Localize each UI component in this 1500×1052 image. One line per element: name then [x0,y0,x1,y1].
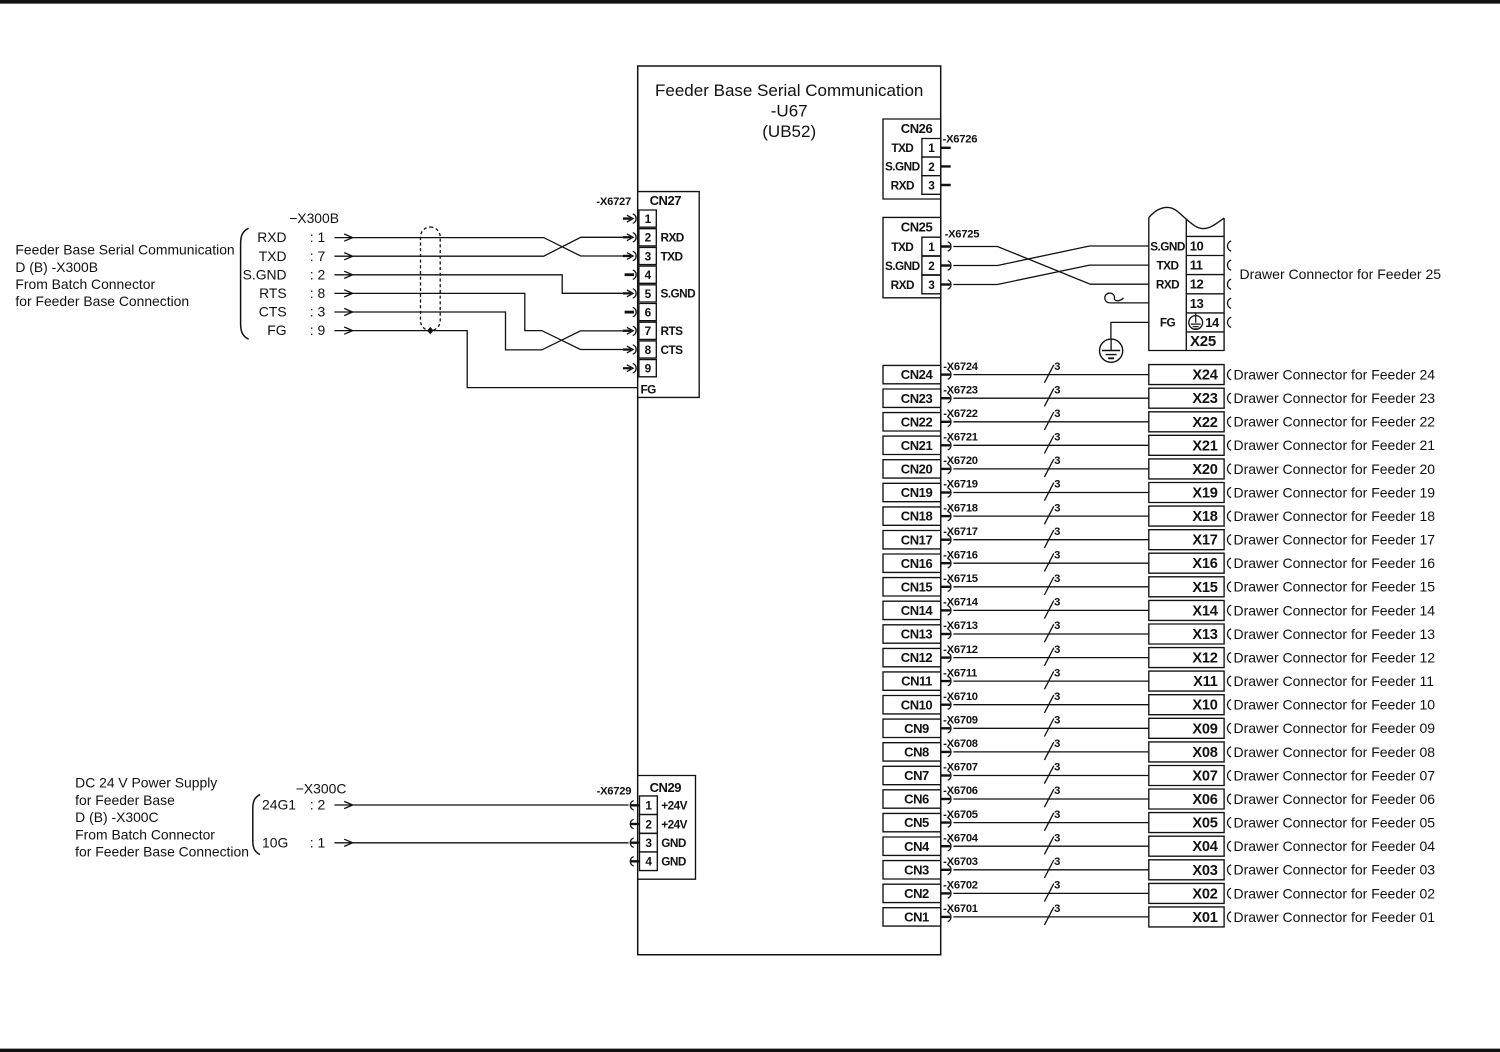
svg-text:-X6702: -X6702 [943,880,978,892]
connector X15 [1149,577,1224,597]
connector CN10 [883,696,941,714]
wire CN23 to X23 [953,397,1148,399]
cable shield (dashed stadium) [421,227,441,331]
connector X09 [1149,718,1224,738]
svg-text:3: 3 [1054,573,1060,585]
svg-text:S.GND: S.GND [661,287,697,301]
contact symbol CN6 [941,794,951,803]
contact symbol CN2 [941,889,951,898]
connector CN26 outline [883,119,941,199]
svg-text:: 1: : 1 [310,834,326,850]
svg-text:-X6729: -X6729 [597,785,632,797]
svg-text:CN24: CN24 [901,367,934,382]
connector CN21 [883,436,941,454]
svg-text:CN23: CN23 [901,391,933,406]
connector CN4 [883,837,941,855]
svg-text:-X6711: -X6711 [943,667,977,679]
svg-text:CN27: CN27 [650,193,682,208]
svg-text:X05: X05 [1192,816,1217,832]
wire CN17 to X17 [953,539,1148,541]
svg-text:3: 3 [1054,384,1060,396]
bus slash 3 wires (row 17) [1044,526,1060,548]
svg-text:12: 12 [1190,277,1204,292]
svg-text:CN8: CN8 [904,745,929,760]
svg-text:-X6706: -X6706 [943,785,978,797]
contact symbol X08 [1227,747,1231,757]
svg-text:X11: X11 [1193,674,1218,690]
svg-text:1: 1 [928,240,935,254]
svg-text:S.GND: S.GND [1150,239,1186,253]
contact symbols X25 pins [1227,241,1231,328]
connector CN14 [883,601,941,619]
contact symbol X12 [1227,653,1231,663]
wire CN22 to X22 [953,421,1148,423]
svg-text:From Batch Connector: From Batch Connector [15,276,155,292]
svg-text:RXD: RXD [661,231,685,245]
svg-text:+24V: +24V [661,799,687,813]
svg-text:TXD: TXD [1157,258,1180,272]
svg-text:CN6: CN6 [904,792,929,807]
svg-text:Feeder Base Serial Communicati: Feeder Base Serial Communication [655,81,923,100]
contact symbol CN21 [941,441,951,450]
contact symbol CN17 [941,535,951,544]
svg-text:-X6704: -X6704 [943,832,979,844]
contact symbol CN16 [941,559,951,568]
svg-text:CN13: CN13 [901,627,933,642]
svg-text:Drawer Connector for Feeder 14: Drawer Connector for Feeder 14 [1233,602,1435,618]
svg-text:X17: X17 [1192,533,1217,549]
contact symbol X24 [1227,370,1231,380]
contact symbol X17 [1227,535,1231,545]
svg-text:-X6701: -X6701 [943,903,978,915]
svg-text:-X6721: -X6721 [943,432,978,444]
svg-text:S.GND: S.GND [243,266,287,282]
svg-text:-U67: -U67 [771,102,808,121]
connector CN9 [883,719,941,737]
svg-text:X20: X20 [1192,462,1217,478]
svg-text:Drawer Connector for Feeder 08: Drawer Connector for Feeder 08 [1233,744,1435,760]
arrow head 10G wire [334,839,352,846]
wire 24G1 to CN29 pin 1 [352,804,629,806]
svg-text:Drawer Connector for Feeder 10: Drawer Connector for Feeder 10 [1233,697,1435,713]
svg-text:1: 1 [645,799,652,813]
bus slash 3 wires (row 18) [1044,502,1060,524]
wire CN21 to X21 [953,444,1148,446]
signal labels X300B (RXD TXD S.GND RTS CTS FG) [243,229,326,338]
svg-text:: 2: : 2 [310,266,326,282]
svg-text:CN20: CN20 [901,462,933,477]
svg-text:D (B) -X300C: D (B) -X300C [75,809,158,825]
svg-text:-X6717: -X6717 [943,526,978,538]
bus slash 3 wires (row 21) [1044,432,1060,454]
contact symbol CN9 [941,724,951,733]
bottom border bar [0,1049,1500,1052]
svg-text:1: 1 [645,212,652,226]
contact symbol X20 [1227,464,1231,474]
contact symbol CN23 [941,394,951,403]
svg-text:−X300C: −X300C [296,780,347,796]
contact symbol CN5 [941,818,951,827]
svg-text:8: 8 [645,343,652,357]
contact symbol CN3 [941,865,951,874]
svg-text:X22: X22 [1192,415,1217,431]
bus slash 3 wires (row 06) [1044,785,1060,807]
svg-text:CN5: CN5 [904,815,929,830]
connector CN6 [883,790,941,808]
brace for X300C signal group [253,795,260,855]
svg-text:-X6703: -X6703 [943,856,978,868]
svg-text:10G: 10G [262,834,288,850]
svg-text:Drawer Connector for Feeder 11: Drawer Connector for Feeder 11 [1233,673,1434,689]
svg-text:Drawer Connector for Feeder 21: Drawer Connector for Feeder 21 [1234,437,1436,453]
svg-text:-X6708: -X6708 [943,738,978,750]
protective earth symbol at X25 pin 14 [1189,313,1203,329]
contact symbol X02 [1227,888,1231,898]
svg-text:CN21: CN21 [901,438,933,453]
svg-text:-X6720: -X6720 [943,455,978,467]
connector CN13 [883,625,941,643]
svg-text:CTS: CTS [259,304,287,320]
svg-text:X21: X21 [1192,438,1217,454]
svg-text:3: 3 [1054,526,1060,538]
brace for X300B signal group [241,228,249,339]
svg-text:X03: X03 [1192,863,1217,879]
svg-text:X14: X14 [1192,603,1218,619]
connector X07 [1149,766,1224,786]
svg-text:-X6718: -X6718 [943,502,978,514]
svg-text:3: 3 [1054,620,1060,632]
svg-text:RXD: RXD [1156,278,1180,292]
svg-text:GND: GND [661,855,687,869]
contact symbol X06 [1227,794,1231,804]
svg-text:-X6727: -X6727 [596,196,631,208]
connector CN15 [883,578,941,596]
wire CN16 to X16 [953,562,1148,564]
svg-text:3: 3 [1054,479,1060,491]
svg-text:Drawer Connector for Feeder 07: Drawer Connector for Feeder 07 [1233,767,1435,783]
contact symbol CN1 [941,912,951,921]
contact symbol CN11 [941,676,951,685]
svg-text:-X6723: -X6723 [943,384,978,396]
svg-text:X12: X12 [1192,651,1217,667]
bus slash 3 wires (row 19) [1044,479,1060,501]
bus slash 3 wires (row 12) [1044,644,1060,666]
svg-text:Drawer Connector for Feeder 05: Drawer Connector for Feeder 05 [1233,815,1435,831]
connector X08 [1149,742,1224,762]
connector CN25 pin boxes 1-3 [922,237,941,294]
svg-text:-X6714: -X6714 [943,597,979,609]
svg-text:CN29: CN29 [650,780,682,795]
connector X12 [1149,648,1224,668]
wire CN12 to X12 [953,657,1148,659]
svg-text:S.GND: S.GND [885,259,921,273]
svg-text:5: 5 [645,287,652,301]
svg-text:1: 1 [928,141,935,155]
contact symbol CN22 [941,417,951,426]
svg-text:2: 2 [928,160,935,174]
svg-text:CN3: CN3 [904,862,929,877]
wire CN13 to X13 [953,633,1148,635]
connector CN23 [883,389,941,407]
connector X18 [1149,506,1224,526]
svg-text:FG: FG [267,322,286,338]
svg-text:Drawer Connector for Feeder 24: Drawer Connector for Feeder 24 [1234,367,1436,383]
svg-text:for Feeder Base: for Feeder Base [75,792,175,808]
svg-text:13: 13 [1190,296,1204,311]
svg-text:RXD: RXD [257,229,286,245]
bus slash 3 wires (row 07) [1044,762,1060,784]
connector CN19 [883,483,941,501]
connector X16 [1149,553,1224,573]
connector CN27 outline [638,192,700,398]
bus slash 3 wires (row 11) [1044,667,1060,689]
wire CN1 to X01 [953,916,1148,918]
bus slash 3 wires (row 14) [1044,597,1060,619]
wire CN5 to X05 [953,822,1148,824]
svg-text:X09: X09 [1192,721,1217,737]
svg-text:Drawer Connector for Feeder 02: Drawer Connector for Feeder 02 [1233,885,1435,901]
wire CN25 pin2 S.GND to X25 pin10 (crossover) [953,246,1148,266]
bus slash 3 wires (row 04) [1044,832,1060,854]
contact symbol CN12 [941,653,951,662]
svg-text:: 1: : 1 [310,229,326,245]
connector CN12 [883,648,941,666]
svg-text:3: 3 [1054,502,1060,514]
wire X25 FG to earth ground [1111,322,1149,339]
connector X13 [1149,624,1224,644]
connector X22 [1149,412,1224,432]
svg-text:Drawer Connector for Feeder 20: Drawer Connector for Feeder 20 [1234,461,1436,477]
wire CN25 pin1 TXD to X25 pin12 (crossover) [953,247,1148,285]
connector CN1 [883,908,941,926]
contact symbol X04 [1227,841,1231,851]
contact symbol X07 [1227,770,1231,780]
connector X25 outline (torn-top box) [1149,207,1224,350]
svg-text:3: 3 [1054,455,1060,467]
svg-text:RTS: RTS [259,285,287,301]
svg-text:X23: X23 [1192,391,1217,407]
connector CN5 [883,813,941,831]
svg-text:3: 3 [1054,644,1060,656]
svg-text:X19: X19 [1192,486,1217,502]
wire CN4 to X04 [953,845,1148,847]
svg-text:CN22: CN22 [901,414,933,429]
svg-text:9: 9 [645,362,652,376]
svg-text:CN11: CN11 [901,674,932,689]
contact symbol X23 [1227,393,1231,403]
wire TXD :7 to CN27 pin 2 (crossover) [352,237,625,256]
contact symbols CN27 pins [623,214,636,373]
arrow head 24G1 wire [334,801,352,808]
bus slash 3 wires (row 02) [1044,880,1060,902]
svg-text:X25: X25 [1190,333,1216,350]
svg-text:CN16: CN16 [901,556,933,571]
svg-text:-X6713: -X6713 [943,620,978,632]
connector X20 [1149,459,1224,479]
wire CTS :3 to CN27 pin 7 (crossover) [352,312,625,350]
contact symbol CN4 [941,842,951,851]
wire CN25 pin3 RXD to X25 pin11 (crossover) [953,265,1148,284]
svg-text:CN26: CN26 [901,121,933,136]
wire CN9 to X09 [953,727,1148,729]
bus slash 3 wires (row 23) [1044,384,1060,406]
svg-text:-X6725: -X6725 [945,228,980,240]
svg-text:CN15: CN15 [901,579,933,594]
svg-text:10: 10 [1190,239,1204,254]
svg-text:3: 3 [1054,549,1060,561]
svg-text:CN14: CN14 [901,603,934,618]
svg-text:7: 7 [645,324,652,338]
svg-text:4: 4 [645,855,652,869]
wire CN8 to X08 [953,751,1148,753]
signal label 10G :1 [262,834,326,850]
connector X04 [1149,836,1224,856]
bus slash 3 wires (row 13) [1044,620,1060,642]
svg-text:3: 3 [1054,667,1060,679]
connector CN20 [883,460,941,478]
wire CN2 to X02 [953,892,1148,894]
connector CN25 outline [883,217,941,297]
svg-text:3: 3 [1054,809,1060,821]
wire CN7 to X07 [953,775,1148,777]
connector CN11 [883,672,941,690]
svg-text:3: 3 [645,836,652,850]
svg-text:X18: X18 [1192,509,1217,525]
bus slash 3 wires (row 24) [1044,361,1060,383]
bus slash 3 wires (row 15) [1044,573,1060,595]
connector X17 [1149,530,1224,550]
svg-text:RXD: RXD [891,178,915,192]
svg-text:CN9: CN9 [904,721,929,736]
bus slash 3 wires (row 09) [1044,715,1060,737]
svg-text:X10: X10 [1192,698,1217,714]
earth ground symbol [1100,339,1123,362]
svg-text:: 2: : 2 [310,797,326,813]
svg-text:CN17: CN17 [901,532,933,547]
contact symbol X03 [1227,865,1231,875]
svg-text:X02: X02 [1192,886,1217,902]
bus slash 3 wires (row 05) [1044,809,1060,831]
bus slash 3 wires (row 03) [1044,856,1060,878]
svg-text:-X6716: -X6716 [943,549,978,561]
svg-text:CN10: CN10 [901,697,933,712]
svg-text:3: 3 [928,278,935,292]
junction dot shield to FG [427,327,434,334]
connector X01 [1149,907,1224,927]
wire CN24 to X24 [953,374,1148,376]
svg-text:CN7: CN7 [904,768,929,783]
contact symbol CN10 [941,700,951,709]
connector X02 [1149,883,1224,903]
svg-text:Drawer Connector for Feeder 12: Drawer Connector for Feeder 12 [1233,650,1435,666]
svg-text:-X6724: -X6724 [943,361,979,373]
svg-text:3: 3 [1054,785,1060,797]
contact symbol X05 [1227,818,1231,828]
wire CN11 to X11 [953,680,1148,682]
svg-text:X04: X04 [1192,839,1218,855]
contact symbol CN18 [941,511,951,520]
svg-text:−X300B: −X300B [289,210,339,226]
svg-text:3: 3 [1054,738,1060,750]
connector CN26 pin boxes 1-3 [922,139,941,195]
wire FG :9 to CN27 FG [352,331,638,388]
note text block X300C description [75,775,249,860]
contact symbol CN13 [941,629,951,638]
contact symbol CN24 [941,370,951,379]
svg-text:3: 3 [1054,903,1060,915]
svg-text:for Feeder Base Connection: for Feeder Base Connection [15,293,189,309]
bus slash 3 wires (row 16) [1044,549,1060,571]
contact symbol X19 [1227,487,1231,497]
wire CN19 to X19 [953,492,1148,494]
wire CN6 to X06 [953,798,1148,800]
connector CN2 [883,884,941,902]
wire CN20 to X20 [953,468,1148,470]
svg-text:3: 3 [1054,597,1060,609]
svg-text:Drawer Connector for Feeder 09: Drawer Connector for Feeder 09 [1233,720,1435,736]
contact symbol CN14 [941,606,951,615]
contact symbol X10 [1227,700,1231,710]
svg-text:3: 3 [1054,880,1060,892]
contact symbol X21 [1227,440,1231,450]
svg-text:4: 4 [645,268,652,282]
svg-text:X15: X15 [1192,580,1217,596]
svg-text:X16: X16 [1192,556,1217,572]
svg-text:: 8: : 8 [310,285,326,301]
svg-text:CN12: CN12 [901,650,933,665]
svg-text:-X6707: -X6707 [943,762,978,774]
connector CN29 pin boxes 1-4 [639,796,657,871]
svg-text:-X6719: -X6719 [943,479,978,491]
svg-text:2: 2 [928,259,935,273]
connector CN18 [883,507,941,525]
connector X11 [1149,671,1224,691]
svg-text:3: 3 [928,178,935,192]
contact symbol CN19 [941,488,951,497]
coiled spare wire to X25 pin13 [1105,293,1149,303]
svg-text:Drawer Connector for Feeder 06: Drawer Connector for Feeder 06 [1233,791,1435,807]
contact symbol CN20 [941,464,951,473]
svg-text:3: 3 [645,249,652,263]
svg-text:Drawer Connector for Feeder 23: Drawer Connector for Feeder 23 [1234,390,1436,406]
svg-text:3: 3 [1054,832,1060,844]
svg-text:FG: FG [641,383,657,397]
top border bar [0,0,1500,4]
contact symbol X01 [1227,912,1231,922]
connector CN8 [883,743,941,761]
bus slash 3 wires (row 01) [1044,903,1060,925]
svg-text:X07: X07 [1192,769,1217,785]
svg-text:Drawer Connector for Feeder 16: Drawer Connector for Feeder 16 [1233,555,1435,571]
connector X21 [1149,435,1224,455]
svg-text:CN19: CN19 [901,485,933,500]
svg-text:11: 11 [1190,258,1203,273]
svg-text:3: 3 [1054,432,1060,444]
svg-text:3: 3 [1054,361,1060,373]
contact symbol X15 [1227,582,1231,592]
contact symbol X11 [1227,676,1231,686]
svg-text:3: 3 [1054,715,1060,727]
wire CN10 to X10 [953,704,1148,706]
bus slash 3 wires (row 08) [1044,738,1060,760]
svg-text:GND: GND [661,836,687,850]
svg-text:-X6705: -X6705 [943,809,978,821]
svg-text:Drawer Connector for Feeder 25: Drawer Connector for Feeder 25 [1240,266,1442,282]
wire RTS :8 to CN27 pin 8 (crossover) [352,293,625,349]
svg-text:3: 3 [1054,691,1060,703]
svg-text:Drawer Connector for Feeder 18: Drawer Connector for Feeder 18 [1234,508,1436,524]
connector CN22 [883,413,941,431]
